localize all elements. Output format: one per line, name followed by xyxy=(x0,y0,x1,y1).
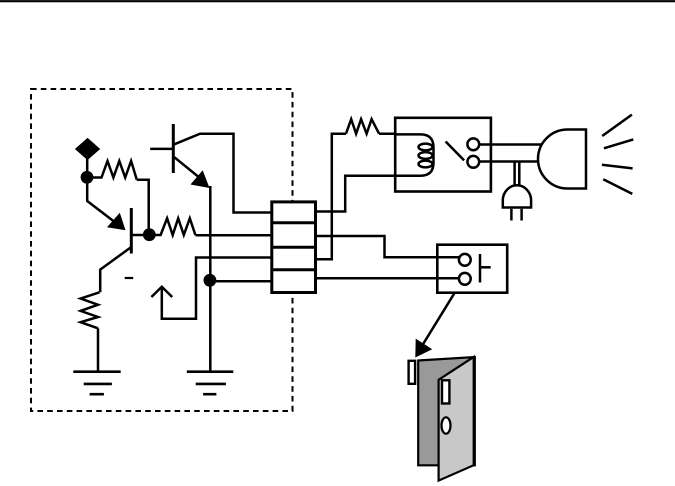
terminal block divider 2 xyxy=(272,246,316,249)
plug prong 2 xyxy=(520,209,523,221)
coil turn 2 xyxy=(419,152,433,159)
Q1 emitter arrowhead xyxy=(107,213,126,231)
door panel (light) xyxy=(439,357,474,481)
wire pin3 up to R4 xyxy=(316,134,347,260)
Q2 collector wire to terminal block pin 1 xyxy=(174,134,271,213)
door switch contact 1 xyxy=(459,254,471,266)
terminal block TB1 xyxy=(272,202,316,293)
dashed enclosure box xyxy=(31,89,293,411)
Q2 emitter arrowhead xyxy=(191,170,210,188)
relay contact 2 xyxy=(467,156,479,168)
ground GND2 xyxy=(187,370,234,373)
resistor R4 xyxy=(346,119,379,134)
door magnet rect xyxy=(442,380,449,403)
plug cord line 1 xyxy=(513,163,516,186)
door switch contact 2 xyxy=(459,273,471,285)
terminal block divider 3 xyxy=(272,268,316,271)
lamp ray 3 xyxy=(602,165,633,169)
door frame (dark) xyxy=(418,357,475,465)
bent arrow open arrowhead xyxy=(151,287,172,297)
minus label xyxy=(125,277,134,279)
wire Q2 emitter down to ground xyxy=(209,186,212,372)
resistor R2 xyxy=(81,292,100,328)
transistor Q2 base bar xyxy=(172,124,175,173)
wire R4 to relay box xyxy=(379,132,395,135)
transistor Q1 base bar xyxy=(130,208,133,254)
diamond D1 xyxy=(77,140,99,159)
relay contact 1 xyxy=(467,138,479,150)
Q2 base lead xyxy=(150,148,173,151)
relay coil xyxy=(395,134,433,175)
lamp ray 4 xyxy=(603,179,632,194)
ground GND1 xyxy=(73,370,120,373)
node A junction dot xyxy=(81,171,94,184)
node B junction dot xyxy=(143,228,156,241)
door switch box S1 xyxy=(437,245,507,293)
coil turn 3 xyxy=(419,161,433,168)
wire node C to terminal block pin 4 xyxy=(210,280,272,283)
wire terminal block pin 3 with bent arrow stub xyxy=(162,258,272,319)
plug prong 1 xyxy=(510,209,513,221)
top border line xyxy=(0,0,675,2)
arrow to door arrowhead xyxy=(415,339,432,358)
wire contact1 to lamp xyxy=(479,143,542,146)
relay box K1 xyxy=(395,118,491,192)
wire R2 to ground xyxy=(97,328,100,371)
terminal block divider 1 xyxy=(272,221,316,224)
door knob xyxy=(442,417,451,433)
wire R1 to node B xyxy=(137,180,149,230)
lamp ray 2 xyxy=(604,139,633,148)
Q1 collector lead xyxy=(100,247,131,292)
door switch magnet bar xyxy=(479,254,482,283)
resistor R1 xyxy=(87,161,137,180)
plug cord line 2 xyxy=(518,163,521,186)
lamp L1 xyxy=(538,130,586,189)
wire diamond to node A xyxy=(86,158,89,173)
node C junction dot xyxy=(204,274,217,287)
wire pin2 to door switch xyxy=(316,236,460,257)
wire pin4 to door switch xyxy=(316,277,459,280)
plug P1 body xyxy=(503,185,531,207)
wire pin1 to relay coil xyxy=(316,176,396,212)
wire contact2 to lamp and plug xyxy=(479,160,538,163)
arrow to door (shaft) xyxy=(421,293,455,348)
wire R3 to terminal block pin 2 xyxy=(195,234,271,237)
wire Q1 base to node B xyxy=(131,234,144,237)
lamp ray 1 xyxy=(602,115,632,136)
resistor R3 xyxy=(155,218,195,235)
frame sensor rect xyxy=(409,361,416,384)
Q2 emitter lead (shaft) xyxy=(174,157,203,180)
relay switch blade xyxy=(446,142,465,161)
wire node A to Q1 emitter (shaft) xyxy=(87,182,115,222)
coil turn 1 xyxy=(419,144,433,151)
door switch magnet tick xyxy=(480,266,491,269)
